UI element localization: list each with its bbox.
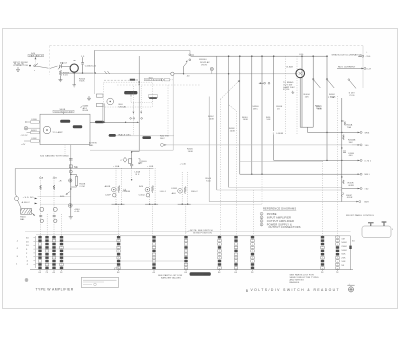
switch contact pair S40 [29, 65, 31, 67]
cell B drop to ladder [151, 204, 153, 236]
shield right drop wire [362, 46, 364, 88]
lamp in readout box [43, 126, 51, 134]
svg-text:C40P: C40P [105, 194, 111, 196]
svg-text:+R: +R [59, 180, 62, 182]
svg-text:C40: C40 [138, 162, 143, 164]
attenuator mid-left: gain adjust [80, 94, 103, 112]
svg-text:R 310: R 310 [283, 89, 290, 91]
svg-text:BAL: BAL [89, 144, 94, 147]
switch wafer 1F [38, 235, 41, 274]
svg-text:SRS: SRS [365, 132, 370, 134]
ganging diagonal with arrow [220, 81, 238, 99]
small resistors on columns [40, 185, 42, 190]
svg-text:L40-1: L40-1 [160, 191, 167, 193]
UNCAL black label [124, 91, 137, 94]
svg-text:TRACE DEC: TRACE DEC [118, 133, 132, 136]
dotted ganging verticals [285, 56, 287, 135]
svg-text:9-45: 9-45 [63, 75, 68, 77]
svg-text:74.0: 74.0 [206, 181, 211, 183]
svg-text:+ 40B: + 40B [147, 166, 154, 168]
svg-text:B 444: B 444 [287, 65, 294, 68]
nest vertical x=228.6 [228, 56, 230, 187]
svg-text:POS: POS [350, 95, 355, 97]
circled X sym [210, 67, 213, 70]
capacitor chain C42A [81, 56, 97, 73]
switch wafer 10 [336, 235, 339, 274]
wire y=73.9 continuing to B444 [184, 73, 296, 75]
nest vertical x=211.5 from circled sym [211, 71, 213, 74]
svg-text:REFERENCE DIAGRAMS: REFERENCE DIAGRAMS [263, 207, 296, 211]
svg-text:10K: 10K [341, 261, 346, 263]
line y=201.6 light [209, 201, 358, 203]
svg-text:50K: 50K [341, 254, 346, 256]
svg-text:+ 40A: + 40A [113, 165, 120, 168]
svg-text:R40L: R40L [141, 161, 147, 163]
resistor branch rectangle R40B [71, 174, 77, 187]
connector circle C [171, 72, 174, 75]
wiper arm 2 [326, 78, 328, 80]
svg-text:500K: 500K [341, 242, 347, 244]
cap + ground bottom [131, 157, 133, 164]
bottom line [30, 269, 353, 271]
black labels in box [60, 120, 70, 123]
line y=132.4 [308, 131, 360, 133]
svg-text:BAL: BAL [20, 218, 25, 221]
svg-text:403R: 403R [348, 185, 354, 187]
svg-text:401R: 401R [347, 197, 353, 199]
cell A verticals [116, 168, 188, 236]
svg-text:1M: 1M [341, 238, 344, 240]
svg-text:0.47: 0.47 [367, 68, 372, 70]
svg-text:DISPLAY: DISPLAY [200, 61, 210, 64]
svg-text:C40: C40 [299, 54, 304, 56]
nest vertical x=217.8 [216, 56, 218, 190]
switch wafer 6 [218, 235, 221, 274]
line y=187.4 light [229, 186, 342, 188]
svg-text:25K: 25K [341, 257, 346, 259]
line y=145 light long [166, 144, 352, 146]
svg-text:100K: 100K [341, 250, 347, 252]
ground under R42A [72, 85, 76, 87]
wiper arrow [66, 192, 70, 195]
svg-text:750K: 750K [79, 81, 85, 83]
svg-text:CR40B: CR40B [123, 191, 131, 193]
svg-text:DEC: DEC [160, 138, 165, 140]
svg-text:INPUT AMPLIFIER: INPUT AMPLIFIER [267, 215, 291, 219]
svg-text:B09: B09 [365, 202, 370, 204]
svg-text:SW040: SW040 [199, 59, 207, 61]
light vertical x=173.2 [172, 76, 174, 145]
resistor R42A below tube [74, 72, 85, 84]
nest vertical x=239.8 [239, 56, 241, 174]
input connector text [13, 62, 28, 72]
svg-text:100K: 100K [188, 151, 194, 153]
svg-text:TO LAMP: TO LAMP [52, 131, 63, 134]
svg-text:TYPE W AMPLIFIER: TYPE W AMPLIFIER [36, 287, 74, 291]
svg-text:70A: 70A [347, 126, 352, 129]
svg-text:0.70 1: 0.70 1 [365, 160, 372, 162]
svg-text:A 400.2: A 400.2 [22, 201, 31, 204]
ground left of lamp [87, 96, 91, 101]
wire y=50.4 to switch SW040 [94, 50, 190, 53]
wire y=196.6 [38, 196, 71, 198]
split to cells [131, 168, 133, 179]
svg-text:5K: 5K [341, 265, 344, 267]
line y=160.4 [274, 159, 360, 161]
svg-text:V/DIV: V/DIV [201, 65, 208, 67]
line y=190 light [217, 189, 342, 191]
cell B trimmers [139, 186, 167, 198]
switch contacts under arrows [130, 118, 132, 120]
terminal circle on y=145 left [161, 143, 164, 146]
cell C verticals [182, 172, 188, 204]
svg-text:NE: NE [74, 165, 78, 169]
svg-text:100K: 100K [209, 119, 215, 121]
svg-text:DEC: DEC [253, 108, 258, 110]
S40A wiper glyph left [161, 79, 163, 81]
wire input to attenuator [36, 66, 58, 68]
notch on bottom line [115, 268, 119, 270]
neon lamp B40 [107, 98, 114, 105]
switch wafer 5 [184, 235, 187, 274]
svg-text:VOLTS/DIV: VOLTS/DIV [191, 274, 204, 276]
svg-text:L040R: L040R [276, 133, 283, 135]
wiper riser to SW040 [184, 62, 187, 74]
center feed down x=131.6 [132, 151, 140, 156]
svg-text:400: 400 [349, 155, 354, 157]
svg-text:IN SW POSITION: IN SW POSITION [193, 232, 212, 234]
dotted linkage under labels [131, 96, 152, 135]
riser to gain box [93, 74, 95, 95]
switch wafer 9 [321, 235, 324, 274]
drafting symbol circled plus [347, 284, 354, 292]
svg-text:#32: #32 [365, 189, 370, 191]
svg-text:RANGES: RANGES [290, 281, 300, 284]
svg-text:C40Q: C40Q [139, 194, 145, 196]
svg-text:C42A 8-45: C42A 8-45 [85, 65, 97, 68]
line y=161.3 light [240, 160, 323, 162]
shield dashed top line [50, 45, 364, 47]
svg-text:PROBE: PROBE [267, 212, 277, 216]
switch wafer 2R [60, 235, 63, 274]
vertical x=327 [326, 56, 328, 160]
left labels column [26, 236, 35, 268]
wire continues right to connector C [96, 73, 171, 75]
riser x=94.4 [93, 50, 95, 73]
svg-text:140: 140 [365, 145, 370, 147]
top light line [25, 231, 351, 233]
svg-text:VOLTS/DIV SW: VOLTS/DIV SW [55, 111, 74, 113]
ground at bottom [69, 217, 73, 219]
svg-text:+L40: +L40 [74, 211, 80, 213]
right terminal RDO current [337, 67, 372, 71]
svg-text:J: J [392, 229, 393, 231]
cell C drop to ladder [185, 204, 187, 236]
nest vertical x=251.8 [251, 56, 253, 174]
dashed lamp box [103, 82, 152, 107]
svg-text:750K: 750K [317, 109, 323, 111]
svg-text:-150: -150 [366, 56, 371, 58]
switch wafer 3 [117, 235, 120, 274]
switch wafer 4 [152, 235, 155, 274]
svg-text:2.2M: 2.2M [79, 186, 84, 188]
svg-text:+ C40: + C40 [180, 164, 187, 166]
svg-text:B40: B40 [139, 186, 144, 188]
svg-text:OUTPUT CONNECTORS: OUTPUT CONNECTORS [268, 225, 300, 229]
svg-text:A40B: A40B [105, 185, 111, 188]
switch wafer 7 [234, 235, 237, 274]
svg-text:UNCAL: UNCAL [119, 105, 128, 108]
svg-text:40A: 40A [39, 177, 44, 180]
GANGED black label [190, 272, 211, 276]
svg-text:+ S.D. NO: + S.D. NO [23, 197, 34, 199]
svg-text:VOLTS/DIV SWITCH & READOUT: VOLTS/DIV SWITCH & READOUT [251, 288, 340, 292]
svg-text:10K: 10K [305, 97, 310, 99]
svg-text:NM L: NM L [365, 174, 371, 176]
right top terminal graticule [332, 52, 371, 59]
wiper arm 3 [348, 79, 350, 81]
circled plus left [25, 279, 28, 282]
main bus y=56.2 [191, 55, 327, 57]
svg-text:A40: A40 [172, 192, 177, 195]
double vertical x=103/104.6 [103, 103, 105, 122]
resistor R40 9-45 [59, 70, 69, 78]
svg-text:+4V: +4V [21, 144, 26, 146]
pot diamond [123, 157, 127, 162]
svg-text:-12.2V: -12.2V [21, 135, 28, 137]
svg-text:GRATICULE ILLUMINATION: GRATICULE ILLUMINATION [332, 53, 363, 56]
cell C trimmers [171, 187, 198, 196]
svg-text:30K: 30K [349, 142, 354, 144]
readout box [40, 114, 90, 144]
svg-text:VOLTS/DIV: VOLTS/DIV [145, 79, 160, 81]
svg-text:R40: R40 [60, 196, 65, 198]
pot hatched box [21, 209, 32, 215]
right bracket column x=350.5 [341, 236, 355, 270]
rounded connector box bottom right [362, 222, 393, 237]
wire from box right y=122.3 [90, 121, 139, 123]
cell A trimmers [105, 185, 131, 197]
line y=188.5 dark right [342, 188, 360, 190]
box verticals x=302 x=313 [301, 56, 303, 127]
tube circle V40 input [70, 64, 78, 72]
legend reference diagrams [260, 207, 301, 230]
cell A drop to ladder [118, 204, 120, 236]
svg-text:R040: R040 [83, 110, 89, 112]
nest vertical x=273.7 [273, 56, 275, 131]
label S40 VARIABLE [28, 53, 44, 64]
box component [129, 159, 132, 164]
SW040 contacts [189, 54, 191, 56]
text see parts list right [290, 274, 320, 284]
second label VAR [148, 95, 157, 98]
svg-text:R40-2: R40-2 [191, 191, 198, 193]
ground under R40 [58, 78, 62, 82]
wire y=135.8 with labels [108, 135, 174, 137]
svg-text:S40 GANGED WITH SW40: S40 GANGED WITH SW40 [40, 155, 69, 158]
bracket + label [138, 159, 140, 164]
svg-text:FRONT PANEL CONTROL: FRONT PANEL CONTROL [346, 214, 375, 217]
ganging diagonal 2 [229, 105, 237, 111]
main wire y=73 [60, 72, 93, 74]
coax marks [105, 71, 110, 74]
cell bottom bars y=204 [40, 203, 262, 205]
svg-text:OUTPUT AMPLIFIER: OUTPUT AMPLIFIER [267, 219, 294, 223]
svg-text:VARIABLE: VARIABLE [29, 55, 43, 58]
capacitor C40 variable [58, 61, 70, 69]
wiper arm 1 [312, 78, 314, 80]
svg-text:C40R: C40R [171, 188, 177, 190]
switch pair mid [264, 82, 266, 84]
svg-text:B: B [246, 289, 249, 293]
svg-text:100K: 100K [230, 130, 236, 132]
cell B verticals [150, 168, 156, 204]
svg-text:250K: 250K [341, 246, 347, 248]
trimmer circles on columns [40, 207, 44, 211]
svg-text:CONNECTOR: CONNECTOR [13, 65, 28, 67]
shield dashed left drop [49, 46, 51, 75]
svg-text:2 T0A: 2 T0A [328, 96, 335, 99]
switch wafer 1R [45, 235, 48, 274]
switch wafer 2F [52, 235, 55, 274]
info box bottom left [81, 277, 118, 287]
S40 label on wire y=80 [104, 79, 130, 81]
svg-text:EARLIER VALUES: EARLIER VALUES [161, 276, 181, 279]
linkage arrows down from VOLTS/DIV label [133, 86, 141, 114]
vertical x=139.2 main [138, 56, 140, 151]
dashed switch box line y=85 [117, 84, 200, 86]
nest vertical x=262 [261, 56, 263, 174]
svg-text:R F: R F [136, 174, 140, 176]
svg-text:1K: 1K [277, 108, 280, 110]
svg-text:40B: 40B [53, 178, 58, 180]
switch wafer 8 [251, 235, 254, 274]
svg-text:10K: 10K [266, 119, 271, 121]
text block TO READOUT [283, 81, 295, 93]
crossing wires left [36, 235, 120, 264]
svg-text:40 1-8: 40 1-8 [60, 61, 67, 64]
svg-text:100K: 100K [243, 119, 249, 121]
line y=174.2 [240, 173, 360, 175]
B444 neon circle [296, 69, 305, 78]
